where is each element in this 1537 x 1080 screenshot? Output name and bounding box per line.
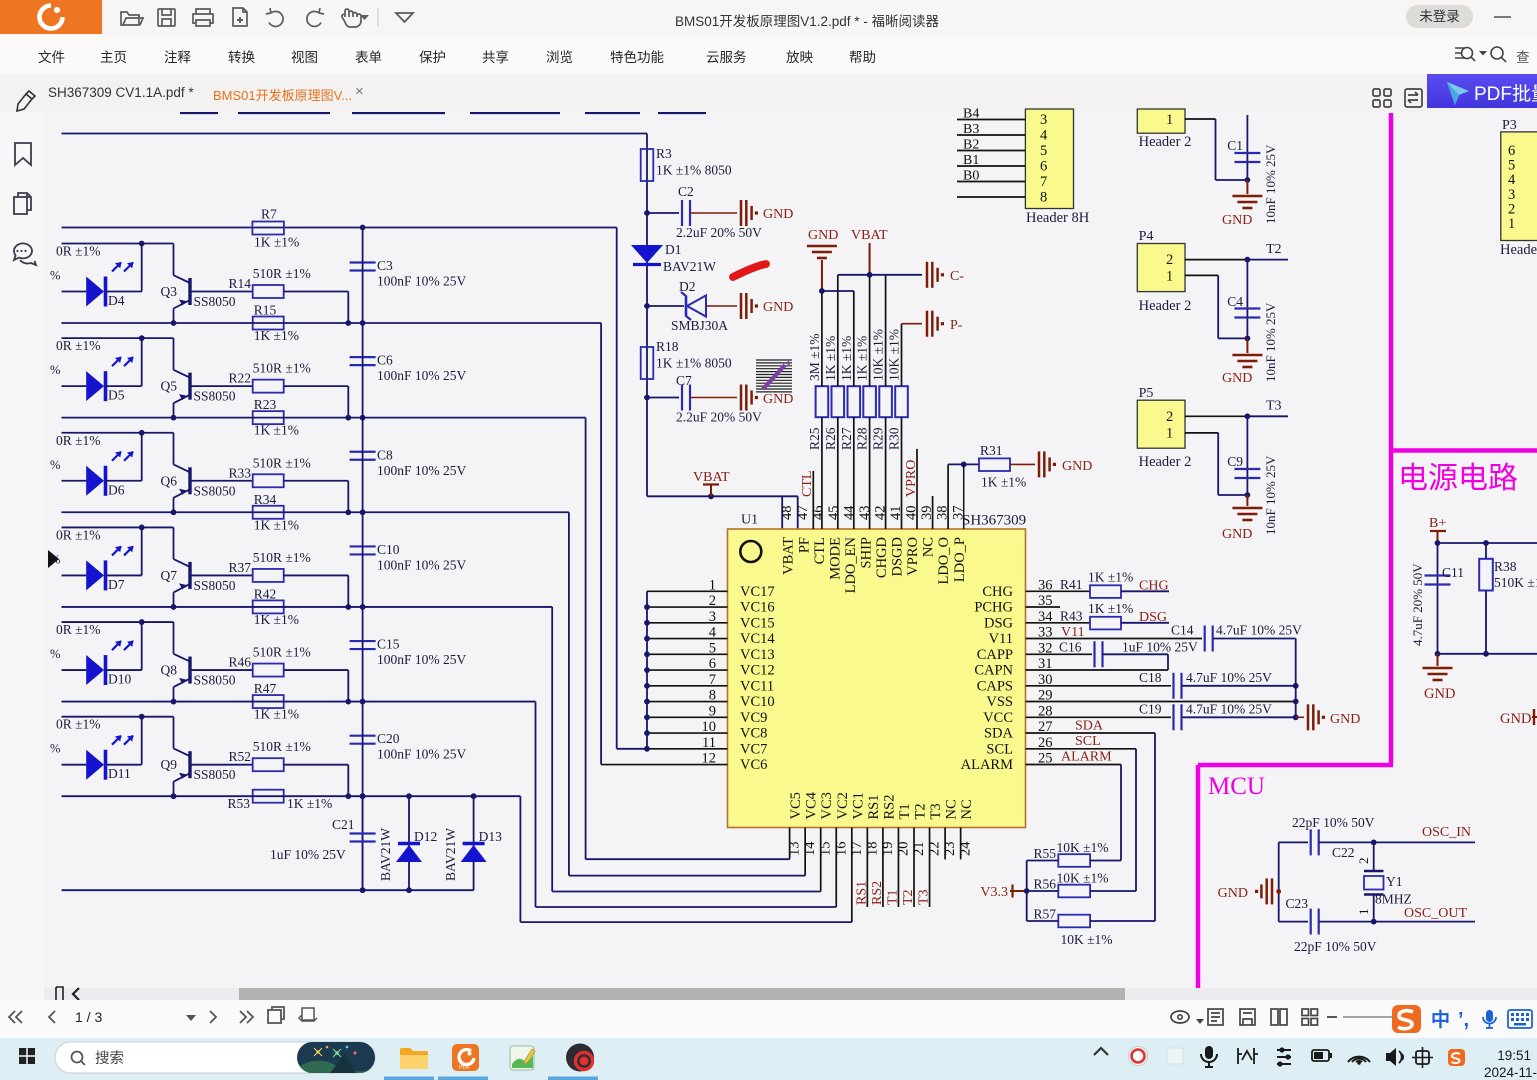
svg-text:C18: C18 — [1139, 670, 1162, 685]
svg-text:CTL: CTL — [800, 471, 815, 497]
svg-text:DSG: DSG — [984, 615, 1014, 631]
svg-text:VSS: VSS — [986, 694, 1013, 710]
svg-text:1K ±1%: 1K ±1% — [287, 796, 332, 811]
svg-text:C21: C21 — [332, 817, 355, 832]
svg-text:45: 45 — [826, 506, 842, 521]
svg-text:SHIP: SHIP — [858, 537, 874, 568]
svg-text:2: 2 — [709, 593, 716, 609]
svg-text:SMBJ30A: SMBJ30A — [671, 318, 728, 333]
svg-text:MCU: MCU — [1208, 773, 1265, 800]
svg-text:R55: R55 — [1033, 846, 1056, 861]
svg-text:Heade: Heade — [1500, 242, 1537, 258]
svg-text:10K ±1%: 10K ±1% — [1057, 871, 1109, 886]
svg-text:Q7: Q7 — [161, 568, 178, 583]
svg-text:3: 3 — [709, 609, 716, 625]
svg-text:VPRO: VPRO — [904, 460, 919, 497]
svg-text:47: 47 — [795, 506, 811, 521]
svg-text:Y1: Y1 — [1386, 874, 1403, 889]
svg-text:%: % — [50, 458, 60, 472]
svg-text:R28: R28 — [855, 427, 870, 450]
svg-text:7: 7 — [1040, 174, 1047, 190]
svg-text:VC4: VC4 — [804, 791, 820, 819]
svg-text:DSG: DSG — [1139, 610, 1167, 625]
svg-text:0R ±1%: 0R ±1% — [56, 527, 101, 542]
svg-text:SS8050: SS8050 — [194, 578, 236, 593]
svg-text:T2: T2 — [913, 803, 929, 819]
svg-text:C6: C6 — [377, 353, 393, 368]
svg-text:T2: T2 — [1266, 242, 1282, 257]
svg-text:6: 6 — [1040, 159, 1047, 175]
svg-text:1: 1 — [1166, 112, 1173, 128]
svg-text:VBAT: VBAT — [693, 470, 730, 485]
svg-text:C20: C20 — [377, 731, 400, 746]
svg-text:2024-11-: 2024-11- — [1484, 1065, 1537, 1080]
svg-text:2: 2 — [1356, 858, 1371, 865]
svg-text:0R ±1%: 0R ±1% — [56, 717, 101, 732]
svg-text:5: 5 — [1508, 158, 1515, 174]
svg-text:44: 44 — [841, 505, 857, 520]
svg-text:SH367309: SH367309 — [962, 513, 1026, 529]
svg-text:C14: C14 — [1171, 623, 1194, 638]
svg-text:Q5: Q5 — [161, 379, 178, 394]
svg-text:ALARM: ALARM — [1061, 750, 1112, 765]
svg-text:VPRO: VPRO — [905, 537, 921, 576]
svg-text:GND: GND — [763, 300, 793, 315]
svg-text:RS2: RS2 — [881, 795, 897, 820]
svg-text:R15: R15 — [254, 303, 277, 318]
svg-text:ALARM: ALARM — [961, 757, 1013, 773]
svg-text:%: % — [50, 363, 60, 377]
svg-text:D10: D10 — [108, 672, 131, 687]
svg-text:VC1: VC1 — [850, 792, 866, 819]
svg-text:Q6: Q6 — [161, 473, 178, 488]
svg-text:100nF 10% 25V: 100nF 10% 25V — [377, 557, 467, 572]
svg-text:R25: R25 — [807, 427, 822, 450]
svg-text:R7: R7 — [261, 207, 277, 222]
svg-text:SDA: SDA — [1075, 719, 1104, 734]
svg-text:22pF 10% 50V: 22pF 10% 50V — [1294, 939, 1377, 954]
svg-text:PF: PF — [796, 537, 812, 553]
svg-text:D13: D13 — [479, 829, 502, 844]
svg-text:T3: T3 — [1266, 399, 1282, 414]
svg-text:GND: GND — [1222, 371, 1252, 386]
svg-text:C3: C3 — [377, 258, 393, 273]
svg-text:VC16: VC16 — [740, 600, 775, 616]
svg-text:VCC: VCC — [983, 710, 1013, 726]
svg-text:R29: R29 — [871, 427, 886, 450]
svg-text:3M ±1%: 3M ±1% — [807, 333, 822, 381]
svg-text:R41: R41 — [1060, 577, 1083, 592]
svg-text:%: % — [50, 742, 60, 756]
svg-text:C7: C7 — [676, 373, 692, 388]
svg-text:100nF 10% 25V: 100nF 10% 25V — [377, 747, 467, 762]
svg-text:0R ±1%: 0R ±1% — [56, 622, 101, 637]
svg-text:VC12: VC12 — [740, 663, 775, 679]
svg-text:BAV21W: BAV21W — [663, 259, 716, 274]
svg-text:1uF 10% 25V: 1uF 10% 25V — [1122, 640, 1198, 655]
svg-text:3: 3 — [1508, 187, 1515, 203]
svg-text:OSC_OUT: OSC_OUT — [1404, 906, 1467, 921]
svg-text:R23: R23 — [254, 397, 277, 412]
svg-text:Q9: Q9 — [161, 757, 178, 772]
svg-text:D2: D2 — [679, 279, 696, 294]
svg-text:LDO_EN: LDO_EN — [843, 536, 859, 593]
svg-text:48: 48 — [779, 506, 795, 521]
svg-text:NC: NC — [921, 537, 937, 557]
svg-text:PDF: PDF — [459, 1065, 471, 1071]
svg-text:1K ±1%: 1K ±1% — [254, 612, 299, 627]
svg-text:GND: GND — [1218, 886, 1248, 901]
svg-text:C23: C23 — [1285, 896, 1308, 911]
svg-text:T2: T2 — [901, 889, 916, 905]
svg-text:SS8050: SS8050 — [194, 767, 236, 782]
svg-text:GND: GND — [763, 392, 793, 407]
svg-text:4.7uF 20% 50V: 4.7uF 20% 50V — [1410, 563, 1425, 646]
svg-text:D1: D1 — [665, 242, 682, 257]
svg-text:Header 8H: Header 8H — [1026, 210, 1090, 226]
svg-text:R30: R30 — [887, 427, 902, 450]
svg-text:1K ±1%: 1K ±1% — [1088, 570, 1133, 585]
svg-text:1K ±1%: 1K ±1% — [254, 707, 299, 722]
svg-text:C22: C22 — [1332, 845, 1355, 860]
svg-text:6: 6 — [1508, 143, 1515, 159]
svg-text:DSGD: DSGD — [890, 537, 906, 576]
svg-text:8: 8 — [1040, 190, 1047, 206]
svg-text:%: % — [50, 552, 60, 566]
svg-text:C15: C15 — [377, 637, 400, 652]
svg-text:R18: R18 — [656, 339, 679, 354]
svg-text:GND: GND — [1330, 712, 1360, 727]
svg-text:P5: P5 — [1139, 386, 1154, 401]
svg-text:1K ±1% 8050: 1K ±1% 8050 — [656, 356, 732, 371]
svg-text:CHG: CHG — [1139, 579, 1169, 594]
svg-text:4: 4 — [1508, 172, 1516, 188]
svg-text:VBAT: VBAT — [781, 537, 797, 575]
svg-text:R33: R33 — [228, 465, 251, 480]
svg-text:RS1: RS1 — [866, 795, 882, 820]
svg-text:4.7uF 10% 25V: 4.7uF 10% 25V — [1186, 670, 1272, 685]
svg-text:100nF 10% 25V: 100nF 10% 25V — [377, 274, 467, 289]
svg-text:1K ±1%: 1K ±1% — [254, 235, 299, 250]
svg-text:1K ±1%: 1K ±1% — [254, 328, 299, 343]
svg-text:GND: GND — [1500, 711, 1531, 727]
svg-text:510R ±1%: 510R ±1% — [253, 266, 311, 281]
svg-text:8MHZ: 8MHZ — [1375, 892, 1412, 907]
svg-text:D7: D7 — [108, 577, 125, 592]
svg-text:%: % — [50, 269, 60, 283]
svg-text:BAV21W: BAV21W — [378, 828, 393, 881]
svg-text:R47: R47 — [254, 681, 277, 696]
svg-text:100nF 10% 25V: 100nF 10% 25V — [377, 463, 467, 478]
svg-text:510R ±1%: 510R ±1% — [253, 739, 311, 754]
svg-text:11: 11 — [702, 735, 716, 751]
svg-text:C10: C10 — [377, 542, 400, 557]
svg-text:CHG: CHG — [982, 584, 1013, 600]
svg-text:CAPN: CAPN — [974, 663, 1013, 679]
svg-text:Q8: Q8 — [161, 663, 178, 678]
svg-text:5: 5 — [1040, 143, 1047, 159]
svg-text:1 / 3: 1 / 3 — [75, 1009, 102, 1025]
svg-text:CHGD: CHGD — [874, 537, 890, 578]
svg-text:R27: R27 — [839, 427, 854, 450]
svg-text:CTL: CTL — [812, 537, 828, 564]
svg-text:P4: P4 — [1139, 229, 1154, 244]
svg-text:中: 中 — [1431, 1008, 1450, 1031]
svg-text:U1: U1 — [741, 513, 758, 528]
svg-text:VC9: VC9 — [740, 710, 767, 726]
svg-text:CAPP: CAPP — [977, 647, 1013, 663]
svg-text:1: 1 — [1508, 216, 1515, 232]
svg-text:10K ±1%: 10K ±1% — [1061, 932, 1113, 947]
svg-text:VC13: VC13 — [740, 647, 775, 663]
svg-text:T3: T3 — [917, 889, 932, 905]
svg-text:R31: R31 — [980, 443, 1003, 458]
svg-text:NC: NC — [944, 799, 960, 819]
svg-text:R38: R38 — [1494, 559, 1517, 574]
svg-text:R43: R43 — [1060, 609, 1083, 624]
svg-text:4.7uF 10% 25V: 4.7uF 10% 25V — [1186, 702, 1272, 717]
svg-text:510R ±1%: 510R ±1% — [253, 645, 311, 660]
svg-text:1: 1 — [709, 577, 716, 593]
svg-text:V11: V11 — [1061, 625, 1085, 640]
svg-text:电源电路: 电源电路 — [1398, 462, 1518, 495]
svg-text:GND: GND — [763, 207, 793, 222]
svg-text:R3: R3 — [656, 146, 672, 161]
svg-text:R52: R52 — [228, 749, 251, 764]
svg-text:D11: D11 — [108, 766, 131, 781]
svg-text:P3: P3 — [1502, 118, 1517, 133]
svg-text:SDA: SDA — [984, 726, 1014, 742]
svg-text:C2: C2 — [678, 184, 694, 199]
svg-text:SCL: SCL — [1075, 734, 1101, 749]
svg-text:1K ±1%: 1K ±1% — [855, 336, 870, 381]
svg-text:2: 2 — [1508, 201, 1515, 217]
svg-text:2.2uF 20% 50V: 2.2uF 20% 50V — [676, 410, 762, 425]
svg-text:1uF 10% 25V: 1uF 10% 25V — [270, 847, 346, 862]
svg-text:510R ±1%: 510R ±1% — [253, 455, 311, 470]
svg-text:10: 10 — [702, 719, 717, 735]
svg-text:100nF 10% 25V: 100nF 10% 25V — [377, 652, 467, 667]
svg-text:BAV21W: BAV21W — [443, 828, 458, 881]
svg-text:C1: C1 — [1227, 138, 1243, 153]
svg-text:V3.3: V3.3 — [980, 885, 1008, 900]
svg-text:VC2: VC2 — [835, 792, 851, 819]
svg-text:T1: T1 — [885, 889, 900, 905]
svg-text:R14: R14 — [228, 276, 251, 291]
svg-text:VC8: VC8 — [740, 726, 767, 742]
svg-text:R42: R42 — [254, 586, 277, 601]
svg-text:1K ±1%: 1K ±1% — [981, 475, 1026, 490]
svg-text:VC3: VC3 — [819, 792, 835, 819]
svg-text:CAPS: CAPS — [977, 678, 1013, 694]
svg-text:R57: R57 — [1033, 907, 1056, 922]
svg-text:D5: D5 — [108, 388, 125, 403]
svg-text:1K ±1%: 1K ±1% — [254, 517, 299, 532]
svg-text:VC17: VC17 — [740, 584, 775, 600]
svg-text:LDO_P: LDO_P — [952, 537, 968, 582]
svg-text:2.2uF 20% 50V: 2.2uF 20% 50V — [676, 225, 762, 240]
svg-text:VC14: VC14 — [740, 631, 775, 647]
svg-text:12: 12 — [702, 751, 717, 767]
svg-text:510R ±1%: 510R ±1% — [253, 361, 311, 376]
svg-text:%: % — [50, 647, 60, 661]
svg-text:4.7uF 10% 25V: 4.7uF 10% 25V — [1216, 623, 1302, 638]
svg-text:0R ±1%: 0R ±1% — [56, 433, 101, 448]
svg-text:GND: GND — [1062, 459, 1092, 474]
svg-text:R34: R34 — [254, 492, 277, 507]
svg-text:C-: C- — [950, 269, 964, 284]
svg-text:7: 7 — [709, 672, 716, 688]
svg-text:GND: GND — [1222, 213, 1252, 228]
svg-text:Header 2: Header 2 — [1139, 298, 1192, 314]
svg-text:VC10: VC10 — [740, 694, 775, 710]
svg-text:LDO_O: LDO_O — [936, 537, 952, 585]
svg-text:6: 6 — [709, 656, 716, 672]
svg-text:10nF 10% 25V: 10nF 10% 25V — [1263, 455, 1278, 535]
svg-text:C11: C11 — [1442, 565, 1464, 580]
svg-text:1: 1 — [1166, 426, 1173, 442]
svg-text:VC6: VC6 — [740, 757, 767, 773]
svg-text:5: 5 — [709, 640, 716, 656]
svg-text:C4: C4 — [1227, 294, 1243, 309]
svg-text:9: 9 — [709, 703, 716, 719]
svg-text:R37: R37 — [228, 560, 251, 575]
svg-text:MODE: MODE — [827, 537, 843, 580]
svg-text:1: 1 — [1356, 909, 1371, 916]
svg-text:VC11: VC11 — [740, 678, 774, 694]
svg-text:10K ±1%: 10K ±1% — [887, 329, 902, 381]
svg-text:510R ±1%: 510R ±1% — [253, 550, 311, 565]
svg-text:C8: C8 — [377, 447, 393, 462]
svg-text:1K ±1% 8050: 1K ±1% 8050 — [656, 163, 732, 178]
svg-text:VC15: VC15 — [740, 615, 775, 631]
svg-text:SS8050: SS8050 — [194, 673, 236, 688]
svg-text:4: 4 — [1040, 128, 1048, 144]
svg-text:C16: C16 — [1059, 640, 1082, 655]
svg-text:SS8050: SS8050 — [194, 294, 236, 309]
svg-text:VC7: VC7 — [740, 741, 767, 757]
svg-text:0R ±1%: 0R ±1% — [56, 244, 101, 259]
svg-text:R46: R46 — [228, 655, 251, 670]
svg-text:R56: R56 — [1033, 877, 1056, 892]
svg-text:GND: GND — [808, 228, 838, 243]
svg-text:T3: T3 — [928, 803, 944, 819]
svg-text:19:51: 19:51 — [1497, 1048, 1531, 1063]
svg-text:1K ±1%: 1K ±1% — [254, 423, 299, 438]
svg-text:1K ±1%: 1K ±1% — [1088, 601, 1133, 616]
svg-text:R53: R53 — [227, 796, 250, 811]
svg-text:510K ±1: 510K ±1 — [1494, 575, 1537, 590]
svg-text:Q3: Q3 — [161, 284, 178, 299]
svg-text:4: 4 — [709, 625, 717, 641]
svg-text:10nF 10% 25V: 10nF 10% 25V — [1263, 144, 1278, 224]
svg-text:V11: V11 — [989, 631, 1013, 647]
svg-text:0R ±1%: 0R ±1% — [56, 338, 101, 353]
svg-text:RS1: RS1 — [854, 881, 869, 905]
svg-text:P-: P- — [950, 318, 963, 333]
svg-text:2: 2 — [1166, 409, 1173, 425]
svg-text:GND: GND — [1424, 686, 1455, 702]
svg-text:43: 43 — [857, 506, 873, 521]
svg-text:22pF 10% 50V: 22pF 10% 50V — [1292, 815, 1375, 830]
svg-text:RS2: RS2 — [870, 881, 885, 905]
svg-text:100nF 10% 25V: 100nF 10% 25V — [377, 368, 467, 383]
svg-text:SS8050: SS8050 — [194, 389, 236, 404]
svg-text:Header 2: Header 2 — [1139, 134, 1192, 150]
svg-text:搜索: 搜索 — [95, 1050, 124, 1067]
svg-text:VBAT: VBAT — [851, 228, 888, 243]
svg-text:B+: B+ — [1429, 516, 1446, 531]
svg-text:T1: T1 — [897, 803, 913, 819]
svg-text:D4: D4 — [108, 293, 125, 308]
svg-text:SCL: SCL — [986, 741, 1013, 757]
svg-text:10nF 10% 25V: 10nF 10% 25V — [1263, 302, 1278, 382]
svg-text:8: 8 — [709, 688, 716, 704]
svg-text:C9: C9 — [1227, 454, 1243, 469]
svg-text:10K ±1%: 10K ±1% — [871, 329, 886, 381]
svg-text:GND: GND — [1222, 527, 1252, 542]
svg-text:PCHG: PCHG — [974, 600, 1013, 616]
svg-text:OSC_IN: OSC_IN — [1422, 825, 1471, 840]
svg-text:D6: D6 — [108, 482, 125, 497]
svg-text:Header 2: Header 2 — [1139, 454, 1192, 470]
svg-text:10K ±1%: 10K ±1% — [1057, 840, 1109, 855]
svg-text:R22: R22 — [228, 371, 251, 386]
svg-text:NC: NC — [959, 799, 975, 819]
svg-text:R26: R26 — [823, 427, 838, 450]
svg-text:SS8050: SS8050 — [194, 483, 236, 498]
svg-text:’,: ’, — [1458, 1009, 1469, 1031]
svg-text:C19: C19 — [1139, 702, 1162, 717]
svg-text:VC5: VC5 — [788, 792, 804, 819]
svg-text:1K ±1%: 1K ±1% — [823, 336, 838, 381]
svg-text:1: 1 — [1166, 269, 1173, 285]
svg-text:3: 3 — [1040, 112, 1047, 128]
svg-text:1K ±1%: 1K ±1% — [839, 336, 854, 381]
svg-text:2: 2 — [1166, 252, 1173, 268]
svg-text:D12: D12 — [414, 829, 437, 844]
